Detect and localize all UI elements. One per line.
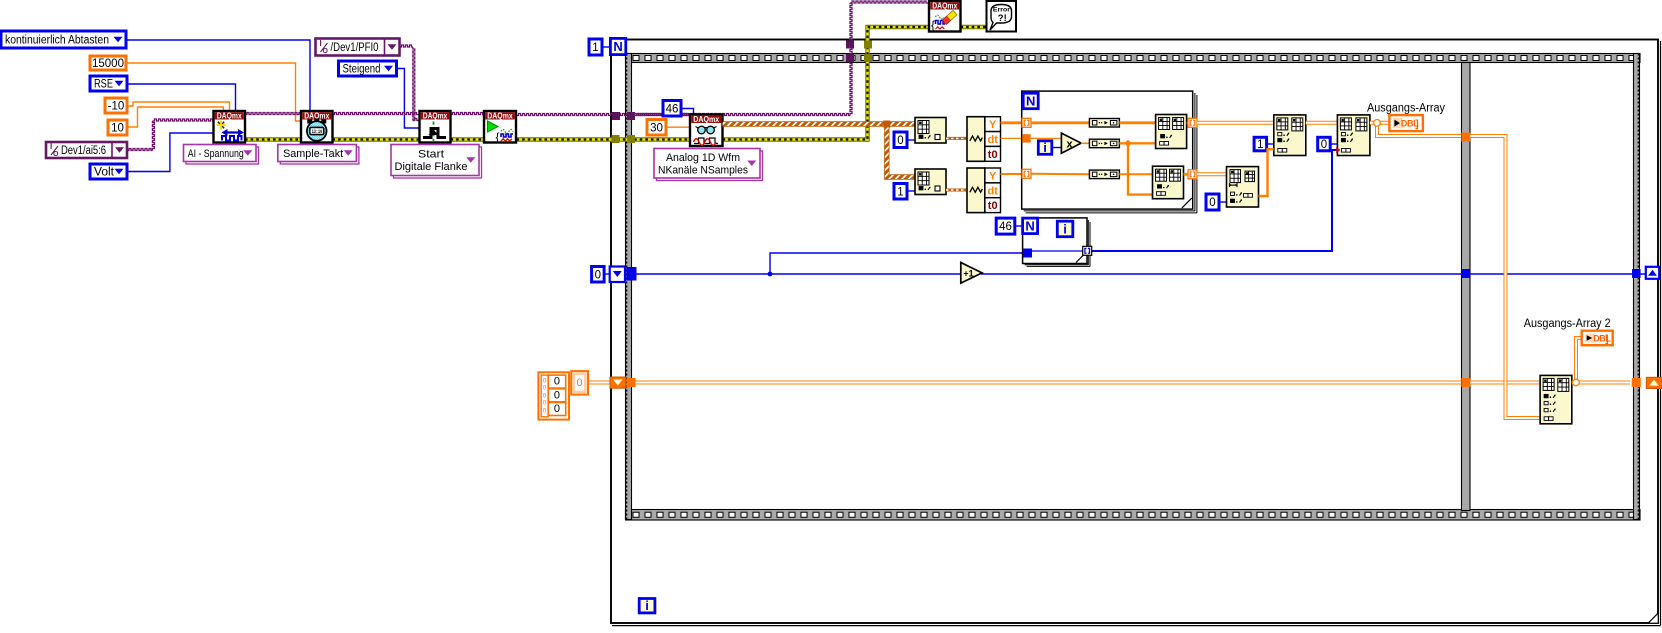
enum control Steigend: [339, 61, 397, 76]
svg-text:Ausgangs-Array: Ausgangs-Array: [1367, 103, 1445, 115]
svg-text:t0: t0: [988, 149, 998, 161]
svg-text:DAQmx: DAQmx: [217, 112, 243, 121]
wire 0 to index1: [907, 139, 915, 141]
array constant 0s: [538, 372, 569, 419]
orange tunnel sequence left low: [627, 378, 636, 387]
svg-text:I: I: [50, 142, 52, 151]
svg-text:0: 0: [554, 376, 560, 388]
constant 30: [647, 120, 666, 136]
frame2 insert into array node: [1540, 375, 1572, 423]
wire Y1 to loop tunnel: [1001, 121, 1024, 124]
wire dt to loop tunnel: [1001, 137, 1024, 139]
svg-text:13:10: 13:10: [312, 129, 323, 135]
svg-text:Digitale Flanke: Digitale Flanke: [395, 161, 468, 173]
error wire tunnel on sequence border: [627, 135, 635, 143]
orange tunnel sequence right low: [1632, 378, 1641, 387]
error wire start to read node: [517, 137, 691, 141]
loop1 tunnel Y2 indexing: [1022, 169, 1031, 178]
DAQmx start task node: [484, 111, 516, 144]
label Ausgangs-Array 2: [1524, 318, 1611, 330]
multiply node: [1061, 133, 1081, 153]
svg-text:Steigend: Steigend: [343, 64, 381, 76]
wire dt to multiply: [1031, 137, 1061, 139]
loop1 out tunnel top: [1188, 118, 1197, 127]
loop1 tunnel Y1 indexing: [1022, 118, 1031, 127]
waveform wire index2 to GWC2: [946, 189, 967, 192]
svg-text:-10: -10: [108, 101, 125, 113]
enum control kontinuierlich Abtasten: [1, 31, 126, 48]
svg-text:Start: Start: [418, 149, 444, 161]
flat sequence right border: [1634, 54, 1640, 520]
enum control Volt: [90, 164, 127, 179]
svg-text:NKanäle NSamples: NKanäle NSamples: [658, 164, 748, 176]
svg-text:0: 0: [577, 377, 583, 389]
wire insertC to Ausgangs-Array: [1370, 120, 1390, 127]
loop2 N terminal: [1023, 218, 1038, 234]
shift register right orange: [1646, 377, 1662, 388]
wire insertA to insertC: [1306, 121, 1338, 125]
constant 0 index1: [894, 132, 907, 148]
svg-text:N: N: [1025, 218, 1034, 233]
indicator Ausgangs-Array DBL: [1389, 115, 1423, 131]
loop1 out tunnel bottom: [1188, 170, 1197, 179]
main loop i terminal: [639, 598, 655, 613]
shift register right blue: [1646, 267, 1659, 279]
svg-text:DAQmx: DAQmx: [693, 115, 720, 124]
svg-text:1: 1: [592, 42, 598, 54]
flat sequence top border: [626, 54, 1641, 63]
svg-text:DBL: DBL: [1593, 333, 1611, 343]
io control Dev1/ai5:6: [46, 142, 127, 158]
inner loop1 N terminal: [1023, 93, 1038, 109]
wire RSE to create node: [127, 84, 236, 111]
insert into array node C: [1337, 115, 1370, 156]
svg-text:0: 0: [543, 377, 547, 384]
svg-text:0: 0: [897, 135, 903, 147]
task wire PFI0 to trigger node: [400, 45, 420, 121]
DAQmx read node: [690, 115, 723, 147]
wire i to multiply: [1052, 145, 1065, 150]
svg-text:N: N: [1026, 93, 1035, 108]
wire Volt to create node: [127, 133, 214, 172]
io control /Dev1/PFI0: [316, 39, 400, 56]
svg-text:Volt: Volt: [94, 167, 115, 179]
wire 1 to insertA: [1267, 143, 1274, 145]
wire small1 to replace1: [1119, 121, 1155, 124]
orange tunnel divider top: [1461, 133, 1470, 142]
svg-text:Y: Y: [989, 119, 997, 131]
svg-text:/Dev1/PFI0: /Dev1/PFI0: [331, 42, 379, 54]
task wire tunnel on sequence border: [627, 112, 635, 120]
wire Y2 to loop tunnel: [1001, 173, 1024, 175]
inner for-loop 1 border: [1022, 91, 1197, 213]
inner for-loop 2 border: [1023, 218, 1090, 267]
svg-text:Dev1/ai5:6: Dev1/ai5:6: [61, 145, 106, 157]
selector AI - Spannung: [184, 145, 259, 165]
constant 0 insertC: [1318, 137, 1331, 151]
error wire tunnel loop top: [864, 41, 872, 49]
wire 0 to insertC: [1330, 143, 1337, 145]
svg-text:46: 46: [999, 221, 1012, 233]
svg-text:0: 0: [554, 389, 560, 401]
wire frame2 insert out: [1572, 338, 1630, 386]
wire inside loop2: [1032, 250, 1083, 252]
constant -10: [105, 98, 127, 113]
svg-text:0: 0: [1321, 139, 1327, 151]
constant 1 index2: [894, 184, 907, 200]
wire 1 to index2: [907, 190, 915, 192]
for-loop main border: [611, 40, 1661, 626]
error wire timing to trigger: [333, 137, 420, 141]
wire orange array shift register y382: [588, 381, 1540, 385]
svg-text:46: 46: [666, 103, 679, 115]
svg-text:0: 0: [543, 384, 547, 391]
DAQmx create virtual channel node: [214, 111, 246, 143]
blue tunnel sequence left: [627, 267, 637, 281]
wire replace2 to tunnel: [1184, 173, 1193, 176]
wire orange to frame2 insert node: [1377, 125, 1540, 418]
enum control RSE: [90, 76, 127, 91]
wire kontinuierlich to timing node: [126, 40, 310, 111]
loop2 i terminal: [1057, 221, 1073, 237]
wire 10 to create node: [127, 107, 223, 127]
task wire sequence tunnel to read: [635, 114, 690, 116]
svg-text:DAQmx: DAQmx: [932, 2, 958, 11]
svg-text:RSE: RSE: [94, 79, 113, 91]
task wire tunnel loop top: [846, 41, 854, 49]
constant 0 shift register blue: [592, 267, 605, 283]
constant 1 loop count: [589, 39, 602, 55]
waveform wire read to index nodes: [723, 121, 916, 178]
svg-text:x: x: [1066, 139, 1073, 151]
selector Sample-Takt: [278, 145, 359, 165]
DAQmx timing node: [301, 111, 333, 143]
orange tunnel shift reg left: [610, 377, 626, 388]
array subset node B: [1227, 167, 1259, 207]
wire 0 to subsetB: [1219, 201, 1227, 203]
error wire clear to error handler: [961, 25, 987, 29]
svg-text:{: {: [496, 130, 500, 144]
blue tunnel divider: [1462, 269, 1471, 278]
loop2 input tunnel: [1023, 249, 1032, 258]
wire multiply to small index 2: [1081, 142, 1089, 144]
svg-text:i: i: [1043, 140, 1047, 155]
dimmed element 0: [571, 371, 588, 395]
task wire trigger to start: [451, 113, 485, 115]
svg-text:1: 1: [897, 186, 903, 198]
svg-text:+1: +1: [963, 268, 973, 278]
wire small3 to replace2: [1119, 173, 1152, 175]
svg-text:]: ]: [1605, 334, 1608, 345]
index array node 2: [915, 169, 946, 195]
svg-text:dt: dt: [988, 185, 999, 197]
constant 46 loop2: [996, 218, 1015, 234]
task wire tunnel sequence top: [846, 54, 854, 62]
wire 46 to read node: [680, 109, 693, 115]
svg-text:1: 1: [1257, 139, 1263, 151]
svg-text:Ausgangs-Array 2: Ausgangs-Array 2: [1524, 318, 1611, 330]
svg-text:{: {: [931, 18, 935, 32]
small index node 2: [1089, 139, 1119, 148]
svg-text:Y: Y: [989, 170, 997, 182]
svg-text:t0: t0: [988, 200, 998, 212]
error wire trigger to start: [451, 137, 485, 141]
task wire timing to trigger: [333, 113, 420, 115]
label Ausgangs-Array: [1367, 103, 1445, 115]
wire loop1 bottom out to subset B: [1197, 172, 1227, 176]
svg-text:0: 0: [595, 269, 601, 281]
wire loop1 top out to insert A: [1197, 121, 1274, 125]
wire -10 to create node: [127, 102, 230, 111]
insert into array node A: [1274, 115, 1306, 156]
orange tunnel divider low: [1461, 378, 1470, 387]
waveform wire index1 to GWC1: [946, 137, 967, 140]
svg-text:0: 0: [543, 407, 547, 414]
wire 15000 to timing node: [126, 63, 301, 121]
flat sequence frame divider: [1462, 63, 1471, 511]
wire Steigend to trigger node: [397, 69, 420, 129]
error wire tunnel sequence top: [864, 54, 872, 62]
main loop N terminal: [610, 38, 625, 54]
task wire create to timing: [245, 113, 301, 115]
constant 1 insertA: [1254, 137, 1267, 151]
loop1 i terminal: [1038, 140, 1052, 155]
wire blue shift register main y273: [604, 272, 1646, 277]
error wire read to clear: [723, 27, 930, 140]
get waveform components node 1: [967, 117, 1001, 162]
svg-text:N: N: [613, 39, 622, 54]
index array node 1: [915, 118, 946, 144]
svg-text:0: 0: [1209, 197, 1215, 209]
wire Y2 inside loop: [1031, 173, 1089, 176]
error wire create to timing: [245, 137, 301, 141]
DAQmx trigger node: [420, 111, 451, 143]
task wire Dev1/ai5:6 to create node: [127, 119, 214, 151]
wire blue branch to inner for-loop 2: [770, 253, 1023, 274]
svg-text:dt: dt: [988, 134, 999, 146]
svg-text:0: 0: [543, 399, 547, 406]
wire 1 to N: [602, 46, 610, 48]
replace array subset node 1: [1156, 115, 1187, 149]
coercion dot node C: [1336, 147, 1340, 153]
svg-text:I: I: [320, 39, 322, 48]
constant 46 read: [663, 101, 681, 117]
svg-text:Analog 1D Wfm: Analog 1D Wfm: [666, 152, 740, 164]
svg-text:30: 30: [650, 122, 663, 134]
flat sequence bottom border: [626, 510, 1641, 521]
svg-text:0: 0: [554, 403, 560, 415]
wire 30 to read node: [665, 126, 690, 128]
svg-text:DAQmx: DAQmx: [423, 112, 448, 121]
small index node 1: [1089, 119, 1119, 128]
task wire start to clear (via loop border): [517, 1, 930, 116]
selector Start Digitale Flanke: [391, 145, 482, 179]
get waveform components node 2: [967, 168, 1001, 213]
flat sequence left border: [626, 54, 632, 520]
loop2 out tunnel indexing: [1083, 246, 1092, 255]
increment +1 node: [961, 263, 982, 284]
error wire tunnel on loop border: [612, 135, 620, 143]
svg-text:]: ]: [1415, 119, 1418, 130]
constant 10: [108, 120, 127, 135]
blue tunnel sequence right: [1632, 269, 1641, 278]
task wire tunnel on loop border: [612, 112, 620, 120]
svg-text:AI - Spannung: AI - Spannung: [188, 148, 244, 160]
svg-text:10: 10: [111, 123, 124, 135]
small index node 3: [1089, 170, 1119, 179]
constant 15000: [90, 56, 126, 70]
replace array subset node 2: [1153, 166, 1184, 199]
loop1 tunnel dt scalar: [1022, 134, 1030, 142]
svg-text:?!: ?!: [998, 13, 1007, 24]
shift register left blue: [610, 267, 625, 283]
simple error handler node: [987, 1, 1017, 32]
wire blue from loop2 to insert node C: [1091, 147, 1341, 251]
wire replace1 to tunnel: [1187, 121, 1192, 124]
wire 46 to loop2 N: [1015, 225, 1023, 227]
wire small2 junction to replace nodes: [1119, 140, 1155, 195]
selector Analog 1D Wfm NKanaele NSamples: [654, 149, 763, 181]
indicator Ausgangs-Array 2 DBL: [1582, 331, 1613, 346]
constant 0 subsetB: [1206, 194, 1219, 210]
wire subsetB out to insertA: [1259, 149, 1274, 196]
wire Y1 inside loop: [1031, 121, 1089, 124]
svg-text:kontinuierlich Abtasten: kontinuierlich Abtasten: [5, 35, 109, 47]
svg-text:15000: 15000: [92, 58, 124, 70]
svg-text:i: i: [645, 598, 649, 613]
DAQmx clear task node: [929, 1, 961, 32]
svg-text:i: i: [1063, 221, 1067, 236]
svg-text:DAQmx: DAQmx: [487, 112, 513, 121]
svg-text:0: 0: [543, 392, 547, 399]
svg-text:Sample-Takt: Sample-Takt: [283, 148, 343, 160]
